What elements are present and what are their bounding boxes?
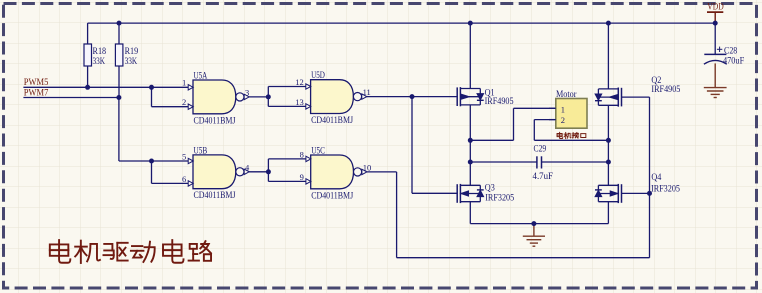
svg-text:R19: R19 — [125, 47, 139, 57]
svg-text:33K: 33K — [93, 57, 106, 67]
svg-text:Q4: Q4 — [651, 173, 661, 183]
svg-text:VDD: VDD — [707, 3, 724, 13]
svg-text:12: 12 — [295, 77, 304, 87]
svg-text:U5D: U5D — [311, 71, 325, 81]
svg-text:CD4011BMJ: CD4011BMJ — [311, 116, 353, 126]
svg-text:11: 11 — [363, 87, 371, 97]
svg-text:C29: C29 — [534, 145, 547, 155]
svg-text:470uF: 470uF — [723, 56, 744, 66]
svg-text:5: 5 — [182, 151, 186, 161]
svg-text:9: 9 — [300, 172, 304, 182]
svg-text:2: 2 — [561, 115, 565, 125]
svg-text:IRF4905: IRF4905 — [485, 97, 514, 107]
svg-text:PWM7: PWM7 — [24, 87, 49, 97]
svg-text:C28: C28 — [724, 46, 738, 56]
svg-text:CD4011BMJ: CD4011BMJ — [194, 191, 236, 201]
svg-text:IRF3205: IRF3205 — [651, 184, 680, 194]
svg-text:Q3: Q3 — [485, 183, 495, 193]
svg-text:IRF4905: IRF4905 — [651, 85, 680, 95]
svg-text:6: 6 — [182, 174, 186, 184]
svg-text:U5A: U5A — [194, 72, 208, 82]
svg-text:CD4011BMJ: CD4011BMJ — [194, 116, 236, 126]
svg-text:R18: R18 — [93, 47, 107, 57]
svg-text:8: 8 — [300, 149, 304, 159]
svg-text:U5B: U5B — [194, 146, 208, 156]
svg-text:1: 1 — [182, 78, 186, 88]
svg-text:PWM5: PWM5 — [24, 77, 49, 87]
svg-text:U5C: U5C — [311, 147, 325, 157]
svg-text:10: 10 — [363, 163, 372, 173]
svg-text:13: 13 — [295, 97, 304, 107]
svg-text:Motor: Motor — [556, 90, 577, 100]
svg-text:2: 2 — [182, 97, 186, 107]
svg-text:4.7uF: 4.7uF — [533, 172, 554, 182]
svg-text:3: 3 — [245, 88, 249, 98]
svg-text:IRF3205: IRF3205 — [485, 194, 514, 204]
svg-text:33K: 33K — [125, 57, 138, 67]
svg-text:1: 1 — [561, 104, 565, 114]
svg-text:CD4011BMJ: CD4011BMJ — [311, 191, 353, 201]
